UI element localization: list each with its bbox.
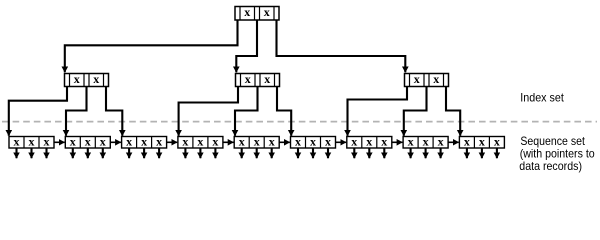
svg-text:x: x	[212, 134, 218, 148]
wire node C pointer 2 to leaf 8	[404, 87, 427, 136]
svg-text:x: x	[381, 134, 387, 148]
wire leaf 8 to leaf 9 (sequence link)	[448, 141, 459, 143]
svg-text:x: x	[479, 134, 485, 148]
leaf node 1	[9, 134, 54, 148]
leaf 5 record pointer arrows	[242, 148, 272, 158]
svg-text:x: x	[141, 134, 147, 148]
svg-text:x: x	[325, 134, 331, 148]
svg-text:data records): data records)	[519, 159, 582, 173]
wire leaf 5 to leaf 6 (sequence link)	[279, 141, 290, 143]
svg-text:x: x	[156, 134, 162, 148]
leaf node 6	[291, 134, 336, 148]
wire node B pointer 3 to leaf 6	[277, 87, 291, 136]
svg-text:x: x	[100, 134, 106, 148]
svg-text:x: x	[29, 134, 35, 148]
wire leaf 1 to leaf 2 (sequence link)	[54, 141, 65, 143]
leaf 9 record pointer arrows	[467, 148, 497, 158]
wire leaf 4 to leaf 5 (sequence link)	[223, 141, 234, 143]
leaf 2 record pointer arrows	[73, 148, 103, 158]
svg-text:x: x	[310, 134, 316, 148]
svg-text:x: x	[126, 134, 132, 148]
svg-text:x: x	[239, 134, 245, 148]
wire node B pointer 1 to leaf 4	[179, 87, 238, 136]
svg-text:x: x	[85, 134, 91, 148]
svg-text:x: x	[464, 134, 470, 148]
wire node A pointer 1 to leaf 1	[9, 87, 67, 136]
svg-text:x: x	[295, 134, 301, 148]
svg-text:Index set: Index set	[520, 90, 564, 104]
svg-text:x: x	[366, 134, 372, 148]
wire root pointer 1 to index node A	[65, 20, 238, 72]
svg-text:x: x	[93, 72, 99, 86]
svg-text:x: x	[408, 134, 414, 148]
wire leaf 2 to leaf 3 (sequence link)	[110, 141, 121, 143]
svg-text:x: x	[433, 72, 439, 86]
root node	[235, 5, 279, 20]
svg-text:x: x	[264, 72, 270, 86]
svg-text:x: x	[438, 134, 444, 148]
svg-text:x: x	[44, 134, 50, 148]
wire node C pointer 1 to leaf 7	[348, 87, 408, 136]
svg-text:x: x	[182, 134, 188, 148]
svg-text:x: x	[423, 134, 429, 148]
leaf 4 record pointer arrows	[185, 148, 215, 158]
index node B	[236, 72, 280, 87]
svg-text:x: x	[197, 134, 203, 148]
leaf node 5	[234, 134, 279, 148]
wire node A pointer 2 to leaf 2	[66, 87, 87, 136]
svg-text:x: x	[414, 72, 420, 86]
leaf node 9	[459, 134, 504, 148]
leaf 1 record pointer arrows	[17, 148, 47, 158]
wire node C pointer 3 to leaf 9	[446, 87, 460, 136]
svg-text:x: x	[245, 72, 251, 86]
wire leaf 6 to leaf 7 (sequence link)	[336, 141, 347, 143]
leaf 8 record pointer arrows	[411, 148, 441, 158]
leaf node 2	[65, 134, 110, 148]
wire root pointer 2 to index node B	[236, 20, 257, 72]
index node A	[65, 72, 109, 87]
label Sequence set (with pointers to data records)	[519, 134, 595, 173]
dashed boundary line between index set and sequence set	[2, 121, 597, 123]
svg-text:x: x	[254, 134, 260, 148]
leaf 3 record pointer arrows	[129, 148, 159, 158]
leaf node 4	[178, 134, 223, 148]
svg-text:x: x	[70, 134, 76, 148]
leaf 6 record pointer arrows	[298, 148, 328, 158]
leaf node 7	[347, 134, 392, 148]
svg-text:x: x	[351, 134, 357, 148]
wire leaf 7 to leaf 8 (sequence link)	[392, 141, 403, 143]
leaf node 8	[403, 134, 448, 148]
leaf 7 record pointer arrows	[354, 148, 384, 158]
svg-text:x: x	[264, 5, 270, 19]
leaf node 3	[122, 134, 167, 148]
svg-text:x: x	[244, 5, 250, 19]
wire leaf 3 to leaf 4 (sequence link)	[167, 141, 178, 143]
svg-text:x: x	[494, 134, 500, 148]
svg-text:x: x	[269, 134, 275, 148]
index node C	[405, 72, 449, 87]
svg-text:x: x	[74, 72, 80, 86]
wire node A pointer 3 to leaf 3	[106, 87, 122, 136]
wire root pointer 3 to index node C	[277, 20, 406, 72]
svg-text:x: x	[14, 134, 20, 148]
wire node B pointer 2 to leaf 5	[235, 87, 258, 136]
